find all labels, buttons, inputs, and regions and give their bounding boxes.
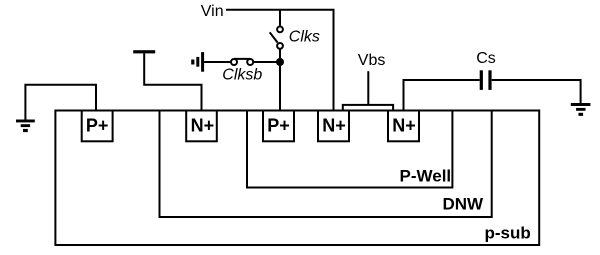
svg-text:N+: N+ [191, 116, 215, 136]
switch Clksb (closed) [231, 59, 253, 65]
svg-text:N+: N+ [322, 116, 346, 136]
svg-text:P-Well: P-Well [400, 167, 452, 186]
svg-text:Clks: Clks [289, 29, 320, 46]
diffusion P+ (p-sub contact) [82, 111, 113, 142]
diffusion N+ (DNW contact) [186, 111, 217, 142]
power VDD bar [133, 50, 155, 53]
well p-sub [55, 111, 539, 246]
ground (left) [16, 120, 35, 133]
svg-text:Vbs: Vbs [358, 52, 386, 69]
svg-text:p-sub: p-sub [485, 224, 531, 243]
wire Vbs stem [367, 71, 369, 105]
junction (body node) [276, 58, 284, 66]
wire Vin wire to Clks switch top [279, 10, 281, 27]
wire Clksb switch to junction [253, 61, 280, 63]
wire Cs to right ground [492, 80, 581, 103]
wire N+ drain to Cs [404, 80, 480, 111]
diffusion N+ (source) [318, 111, 349, 142]
svg-text:N+: N+ [392, 116, 416, 136]
wire ground to Clksb switch [204, 61, 231, 63]
well P-Well [247, 111, 452, 188]
svg-text:DNW: DNW [443, 195, 485, 214]
svg-text:P+: P+ [267, 116, 290, 136]
gate plate (Vbs electrode) [343, 105, 393, 111]
diffusion P+ (P-Well body contact) [263, 111, 294, 142]
svg-text:P+: P+ [86, 116, 109, 136]
wire Vin to N+ source [226, 10, 334, 111]
well DNW [160, 111, 492, 218]
ground (Clksb side, rotated) [191, 52, 204, 72]
svg-text:Clksb: Clksb [222, 67, 262, 84]
diffusion N+ (drain) [388, 111, 419, 142]
wire P+ substrate contact to left ground [25, 85, 96, 120]
svg-text:Vin: Vin [201, 3, 224, 20]
capacitor Cs [480, 70, 492, 90]
ground (right) [571, 103, 591, 116]
wire Clks switch to P+ body contact [279, 49, 281, 111]
switch Clks [270, 27, 283, 49]
wire VDD to N+ DNW contact [144, 53, 201, 110]
svg-text:Cs: Cs [476, 50, 496, 67]
